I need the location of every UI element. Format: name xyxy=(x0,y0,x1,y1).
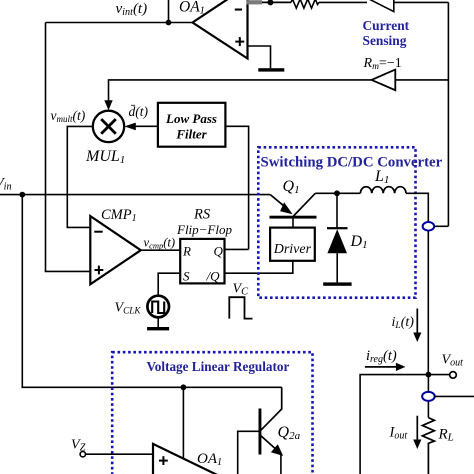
wire switch node xyxy=(315,192,360,194)
wire resistor to amp xyxy=(319,1,367,3)
arrowhead into MUL top xyxy=(104,100,112,110)
wire Rm output to MUL (long) xyxy=(109,80,372,101)
box Switching DC/DC Converter (dotted blue) xyxy=(258,147,415,297)
wire Rm input from right vertical xyxy=(395,79,448,81)
arrowhead into MUL right xyxy=(124,123,135,131)
svg-text:Q: Q xyxy=(214,244,224,259)
terminal Vout open circle xyxy=(450,372,457,379)
wire probe tap to feedback xyxy=(434,225,448,227)
node v_int junction dot xyxy=(166,20,172,26)
box Low Pass Filter xyxy=(158,103,226,147)
op-amp Rm current sense amp (points left) xyxy=(372,70,396,91)
inductor L1 xyxy=(360,187,406,194)
waveform V_C pulse glyph xyxy=(229,297,252,318)
svg-text:Filter: Filter xyxy=(175,127,207,142)
wire probe 2 tap to right edge xyxy=(435,395,474,397)
node V_in junction dot xyxy=(19,192,25,198)
wire LPF to MUL xyxy=(131,125,158,127)
ground D1 xyxy=(323,282,351,285)
wire /Q output to driver xyxy=(225,261,293,273)
amplifier (top, cropped triangle) xyxy=(366,0,394,12)
wire V_in bus xyxy=(0,194,270,196)
wire Q2a base to op-amp output xyxy=(238,431,259,474)
transistor Q1 xyxy=(270,193,317,227)
wire right feedback vertical xyxy=(447,2,449,226)
box Driver xyxy=(270,228,315,261)
op-amp OA1 plus input wire (top) xyxy=(248,46,271,68)
node output junction dot xyxy=(426,372,432,378)
svg-text:RS: RS xyxy=(193,207,211,223)
wire Q output (up to LPF via right) xyxy=(225,248,249,250)
svg-text:CMP1: CMP1 xyxy=(101,207,137,224)
svg-text:Low Pass: Low Pass xyxy=(165,111,217,126)
wire V_in down to linear regulator xyxy=(22,195,281,388)
svg-text:Voltage Linear Regulator: Voltage Linear Regulator xyxy=(147,359,290,374)
wire output node down to R_L xyxy=(427,375,429,418)
arrow i_L down xyxy=(416,309,418,334)
wire v_int stub up xyxy=(168,0,170,23)
arrow i_reg right xyxy=(365,366,397,368)
wire L1 to output node xyxy=(406,193,428,374)
wire v_int output to left xyxy=(46,22,193,24)
diode D1 xyxy=(327,193,348,282)
ground OA1 plus xyxy=(258,68,284,71)
box Voltage Linear Regulator (dotted blue) xyxy=(112,352,312,474)
wire V_Z to op-amp + xyxy=(86,453,154,455)
resistor R_L xyxy=(422,418,434,474)
transistor Q2a xyxy=(259,409,284,474)
wire supply to Q2a collector xyxy=(261,387,282,430)
resistor (top, cropped zigzag) xyxy=(291,0,319,8)
wire v_int down left side to CMP + xyxy=(46,23,91,272)
svg-text:/Q: /Q xyxy=(206,269,221,284)
comparator CMP1 xyxy=(90,216,141,284)
source VCLK xyxy=(147,296,169,318)
arrow I_out down xyxy=(416,416,418,441)
terminal V_Z open circle xyxy=(80,452,85,457)
svg-text:S: S xyxy=(183,269,190,284)
node junction dot top xyxy=(267,0,273,5)
svg-text:Current: Current xyxy=(363,18,410,33)
wire MUL output to CMP minus xyxy=(67,126,93,227)
box RS flip-flop xyxy=(180,239,224,284)
wire OA1 minus input (top horizontal) xyxy=(248,1,292,3)
svg-text:Flip−Flop: Flip−Flop xyxy=(176,222,232,237)
node junction dot at regulator supply xyxy=(181,384,187,390)
wire to Vout terminal xyxy=(428,374,449,376)
node switch junction dot xyxy=(334,190,340,196)
wire S input from VCLK xyxy=(158,273,180,295)
multiplier MUL1 xyxy=(93,111,124,142)
op-amp OA1 (top integrator, points left) xyxy=(193,0,248,59)
svg-text:Switching DC/DC Converter: Switching DC/DC Converter xyxy=(261,155,443,171)
wire i_reg from regulator xyxy=(360,375,428,474)
current probe 2 (output ellipse) xyxy=(422,392,435,401)
wire amp to right corner xyxy=(394,1,449,3)
svg-text:d̄(t): d̄(t) xyxy=(129,104,149,119)
current probe (sensing ellipse) xyxy=(423,222,435,231)
svg-text:Sensing: Sensing xyxy=(363,33,407,48)
svg-text:MUL1: MUL1 xyxy=(85,148,125,166)
wire LPF input from Q of flip-flop xyxy=(225,126,248,249)
svg-text:iL(t): iL(t) xyxy=(392,315,415,331)
wire CMP output to R input xyxy=(141,249,180,251)
ground VCLK xyxy=(157,317,159,327)
svg-text:Driver: Driver xyxy=(273,242,312,257)
wire regulator supply down to op-amp xyxy=(182,387,184,458)
capacitor plate remnant (gray bar, cropped) xyxy=(247,0,263,4)
op-amp OA1 (bottom, cropped) xyxy=(153,444,238,474)
svg-text:R: R xyxy=(182,244,191,259)
